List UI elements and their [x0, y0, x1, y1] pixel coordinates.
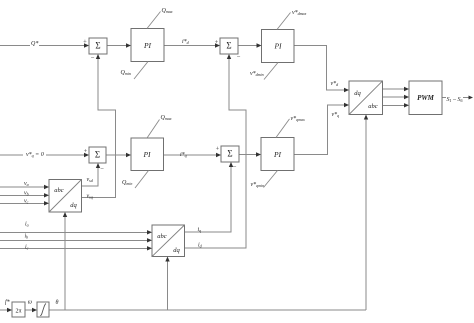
svg-text:−: −: [237, 54, 241, 61]
svg-text:PI: PI: [273, 42, 282, 51]
svg-text:−: −: [91, 55, 95, 62]
svg-text:abc: abc: [54, 187, 64, 194]
svg-text:θ: θ: [56, 300, 59, 306]
svg-text:dq: dq: [173, 247, 180, 254]
svg-text:va: va: [24, 181, 29, 187]
svg-text:Qmax: Qmax: [161, 115, 172, 121]
svg-text:Σ: Σ: [227, 149, 232, 159]
svg-text:v*q = 0: v*q = 0: [26, 152, 44, 158]
svg-text:ic: ic: [25, 245, 29, 251]
svg-text:S1 – S6: S1 – S6: [447, 97, 463, 103]
svg-text:abc: abc: [368, 103, 378, 110]
svg-text:PI: PI: [273, 150, 282, 159]
svg-text:ω: ω: [28, 300, 32, 306]
svg-text:f*: f*: [5, 299, 10, 306]
svg-text:ib: ib: [25, 234, 29, 240]
svg-text:v*d: v*d: [331, 81, 340, 87]
svg-text:Σ: Σ: [95, 150, 100, 160]
svg-text:Qmax: Qmax: [162, 8, 173, 14]
svg-text:PI: PI: [143, 41, 152, 50]
svg-text:PWM: PWM: [417, 94, 435, 102]
svg-text:Qmin: Qmin: [122, 180, 132, 186]
svg-text:2π: 2π: [15, 309, 21, 315]
svg-text:dq: dq: [70, 202, 77, 209]
svg-text:v*q: v*q: [332, 112, 340, 118]
svg-text:vsd: vsd: [87, 177, 94, 183]
svg-text:v*dmin: v*dmin: [250, 71, 264, 77]
svg-text:PI: PI: [142, 150, 151, 159]
svg-text:ia: ia: [25, 222, 29, 228]
svg-text:−: −: [233, 164, 237, 171]
svg-text:Σ: Σ: [226, 41, 231, 51]
svg-text:i*d: i*d: [182, 39, 190, 45]
svg-text:vsq: vsq: [87, 194, 93, 200]
svg-text:v*dmax: v*dmax: [292, 10, 307, 16]
svg-text:Σ: Σ: [95, 41, 100, 51]
svg-text:+: +: [83, 39, 87, 46]
svg-text:v*qmin: v*qmin: [251, 182, 265, 188]
svg-text:−: −: [100, 166, 104, 173]
svg-text:Qmin: Qmin: [121, 70, 131, 76]
svg-text:abc: abc: [157, 233, 167, 240]
svg-text:i*q: i*q: [180, 152, 187, 158]
svg-text:vb: vb: [24, 191, 29, 197]
svg-text:iq: iq: [198, 227, 202, 233]
svg-text:dq: dq: [354, 90, 361, 97]
svg-text:+: +: [216, 146, 220, 153]
svg-text:+: +: [84, 148, 88, 155]
svg-text:+: +: [215, 39, 219, 46]
svg-text:v*qmax: v*qmax: [291, 116, 306, 122]
svg-text:Q*: Q*: [31, 41, 38, 47]
svg-text:vc: vc: [24, 199, 29, 205]
